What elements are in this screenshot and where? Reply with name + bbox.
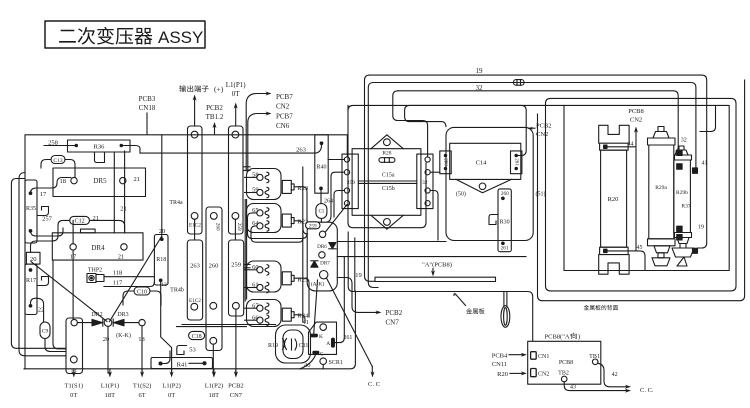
wire R24 right	[294, 315, 305, 322]
wire C9 down	[45, 339, 66, 352]
wire T1S2 down	[141, 326, 143, 373]
svg-text:0T: 0T	[232, 90, 241, 98]
bottom label T1(S2) 6T	[141, 369, 143, 374]
svg-text:R30: R30	[500, 220, 510, 226]
svg-text:DR7: DR7	[320, 261, 330, 267]
svg-text:R40: R40	[316, 165, 326, 171]
svg-text:G: G	[320, 352, 324, 358]
AK terminal	[320, 271, 328, 279]
svg-text:TB1.2: TB1.2	[206, 113, 224, 121]
capacitor C9	[40, 322, 50, 339]
wire loop left outer	[11, 179, 66, 349]
C15 top triangle	[371, 135, 403, 149]
connector bar TR4b-2	[229, 240, 244, 316]
svg-text:53: 53	[189, 347, 196, 354]
C14 left pad	[440, 151, 451, 174]
wire 19	[370, 75, 707, 248]
svg-text:CN2: CN2	[630, 117, 642, 124]
diagonal C15pad to DR6	[326, 205, 347, 232]
thermal THP2 symbol	[87, 274, 96, 283]
svg-text:19: 19	[698, 225, 704, 231]
svg-text:L1(P2): L1(P2)	[162, 383, 180, 390]
svg-text:CN11: CN11	[492, 361, 507, 368]
wire TB2 43	[564, 382, 627, 391]
stub wires g1	[244, 166, 250, 168]
label box 20	[26, 252, 40, 264]
svg-text:TR4b: TR4b	[170, 288, 184, 294]
svg-text:32: 32	[422, 180, 428, 186]
wire CC	[371, 367, 373, 375]
svg-text:(50): (50)	[456, 191, 466, 198]
wire R18 top	[161, 135, 163, 239]
wire loop C14	[446, 127, 533, 240]
svg-text:"A"(PCB8): "A"(PCB8)	[422, 262, 452, 269]
svg-text:64: 64	[252, 220, 259, 227]
wire KK down	[107, 326, 109, 373]
resistor R29a collar bottom	[648, 239, 676, 246]
wire R17 bottom	[31, 298, 44, 322]
svg-text:L1(P2): L1(P2)	[205, 383, 223, 390]
svg-text:32: 32	[681, 138, 687, 144]
svg-text:259: 259	[309, 223, 317, 229]
right inner staple	[700, 105, 716, 131]
wire to PCB7 CN2	[246, 94, 268, 172]
diode DR3	[112, 319, 114, 326]
svg-text:32: 32	[476, 84, 484, 92]
svg-text:T1(S2): T1(S2)	[133, 383, 151, 390]
svg-text:PCB7: PCB7	[276, 113, 293, 121]
capacitor C13	[51, 156, 65, 164]
svg-text:PCB8: PCB8	[559, 360, 573, 366]
wire bundle b	[251, 226, 303, 242]
svg-text:CN18: CN18	[139, 104, 156, 112]
svg-text:18T: 18T	[105, 392, 116, 399]
svg-text:PCB2: PCB2	[386, 309, 403, 317]
wire into R40	[320, 142, 323, 145]
resistor R20 bottom bracket	[599, 255, 629, 275]
svg-text:257: 257	[42, 216, 53, 223]
wire DR3	[124, 322, 139, 324]
svg-text:C. C: C. C	[368, 381, 380, 388]
wire 44	[607, 130, 636, 147]
svg-text:C. C.: C. C.	[640, 387, 654, 394]
wire 258	[44, 145, 76, 147]
resistor R36	[68, 140, 131, 152]
svg-text:C1: C1	[318, 210, 324, 215]
lug 19c	[693, 248, 698, 253]
svg-text:0T: 0T	[70, 392, 77, 399]
resistor R29b collar	[675, 155, 692, 160]
svg-text:60: 60	[252, 264, 259, 271]
svg-text:R29a: R29a	[655, 185, 667, 191]
svg-text:(+): (+)	[214, 85, 224, 94]
pcb8 box	[528, 341, 601, 384]
C15 mid lines	[358, 180, 417, 182]
svg-text:R17: R17	[26, 278, 36, 284]
svg-text:19: 19	[476, 67, 484, 75]
wire loop left inner	[19, 173, 66, 356]
thyristor SCR1 body	[309, 322, 337, 354]
resistor group R24	[247, 300, 282, 327]
svg-text:R28: R28	[382, 150, 391, 156]
DR4 tab	[81, 229, 96, 233]
wire R22 right	[294, 221, 308, 234]
svg-text:CN1: CN1	[538, 354, 549, 360]
middle box bottom	[348, 232, 533, 341]
svg-text:PCB4: PCB4	[492, 353, 508, 360]
svg-text:58: 58	[252, 172, 259, 179]
lug 41a	[677, 164, 682, 169]
svg-text:PCB2: PCB2	[228, 383, 244, 390]
wire transformer wrapper	[348, 105, 426, 227]
capacitor C18	[189, 331, 205, 339]
svg-text:PCB8("A": PCB8("A"	[545, 334, 573, 341]
svg-text:0T: 0T	[168, 392, 175, 399]
SCR1 bottom terminal	[320, 358, 327, 365]
svg-text:R20: R20	[608, 196, 619, 203]
wire long A	[337, 241, 446, 243]
resistor R41 box	[151, 358, 213, 369]
C15 left pad	[342, 154, 358, 209]
svg-text:18T: 18T	[209, 392, 220, 399]
resistor R20 collar bottom	[600, 247, 629, 254]
connector bar TR4a-1	[188, 126, 203, 234]
svg-text:PCB8: PCB8	[628, 108, 644, 115]
svg-text:R19: R19	[268, 343, 278, 349]
svg-text:18: 18	[60, 178, 67, 185]
title box	[45, 21, 205, 48]
wire bundle stubs	[245, 176, 257, 178]
connector bar TR4b-1	[187, 240, 202, 320]
svg-text:PCB2: PCB2	[536, 123, 552, 130]
label metal plate	[466, 308, 485, 314]
resistor R35	[25, 180, 37, 243]
diagonal AK to CC	[327, 278, 373, 366]
svg-text:L1(P1): L1(P1)	[101, 383, 119, 390]
wire PCB2 CN7 right	[337, 278, 378, 313]
svg-text:R36: R36	[94, 144, 106, 151]
resistor R29a collar top	[648, 138, 676, 145]
wire DR4 up	[72, 220, 74, 243]
tab below R36	[95, 152, 105, 163]
wire long B	[337, 256, 526, 258]
R41 right wire	[189, 362, 203, 364]
wire DR5 left	[31, 178, 71, 194]
svg-text:12: 12	[161, 282, 167, 288]
svg-text:L1(P1): L1(P1)	[226, 81, 247, 89]
THP2 wires 118 117	[104, 276, 154, 278]
node K-K	[104, 319, 112, 327]
wire pcb2cn2 drop	[405, 105, 527, 155]
wire 32	[398, 91, 678, 151]
terminal T1S2	[139, 319, 145, 325]
resistor R29a funnel	[654, 246, 670, 253]
wire R23 right	[294, 187, 307, 221]
svg-text:260: 260	[209, 263, 219, 270]
svg-text:C18: C18	[192, 334, 202, 340]
resistor R20 top bracket	[599, 125, 629, 143]
svg-text:66: 66	[252, 314, 259, 321]
svg-text:C14: C14	[476, 160, 488, 167]
resistor R29b collar bottom	[675, 233, 692, 238]
DR7 terminal	[319, 252, 325, 258]
connector bar 260 middle	[206, 207, 222, 351]
diagonal wire 20box to KK	[31, 262, 107, 322]
svg-text:261: 261	[513, 158, 518, 166]
svg-text:C10: C10	[137, 289, 147, 295]
wire A pad right	[334, 257, 344, 343]
ferrite bead	[514, 80, 525, 86]
svg-text:42: 42	[612, 372, 618, 378]
wire loop inner	[283, 330, 303, 359]
capacitor C10	[134, 287, 150, 295]
resistor R30	[498, 189, 511, 252]
wire C1 down	[320, 219, 322, 223]
tab 53	[177, 346, 187, 355]
svg-text:R35: R35	[26, 206, 36, 212]
resistor R40	[315, 135, 328, 193]
wire to PCB7 CN6	[248, 114, 268, 172]
svg-text:19: 19	[355, 272, 362, 279]
lug 19a	[677, 226, 682, 231]
svg-text:264: 264	[324, 199, 333, 205]
connector bar TR4a-2	[229, 126, 244, 234]
svg-text:17: 17	[40, 191, 47, 198]
capacitor C1	[316, 204, 327, 219]
svg-text:A: A	[326, 341, 330, 347]
svg-text:R37: R37	[681, 204, 690, 210]
DR4 terminal 17	[70, 244, 76, 250]
svg-text:TR4a: TR4a	[169, 200, 183, 206]
svg-text:6T: 6T	[138, 392, 145, 399]
svg-text:R25: R25	[297, 276, 308, 283]
bar terminal T1S1	[66, 318, 83, 374]
svg-text:61: 61	[252, 282, 259, 289]
wire 45	[607, 251, 645, 271]
svg-text:67: 67	[252, 302, 259, 309]
bottom label L1(P2) 0T	[171, 369, 173, 374]
resistor R29b body	[674, 160, 691, 233]
diode box DR6 DR7	[307, 222, 337, 291]
capacitor C12	[70, 216, 90, 224]
resistor R20 collar top	[600, 143, 629, 150]
wire loop outer	[276, 325, 311, 363]
svg-text:C13: C13	[53, 158, 62, 164]
svg-text:259: 259	[231, 262, 241, 269]
terminal bar circle	[191, 131, 198, 138]
relay box DR4	[52, 233, 143, 260]
bottom label PCB2 CN7	[235, 369, 237, 374]
svg-text:DR5: DR5	[93, 177, 107, 185]
svg-text:CN2: CN2	[276, 103, 290, 111]
wire TB1 42	[598, 363, 628, 387]
wire C12 right	[90, 220, 125, 232]
svg-text:C12: C12	[75, 219, 85, 225]
SCR1 A pad	[332, 338, 335, 347]
svg-text:T1(S1): T1(S1)	[65, 383, 83, 390]
bottom label L1(P1) 18T	[109, 369, 111, 374]
resistor R29b funnel	[677, 238, 689, 244]
capacitor C11	[291, 339, 293, 350]
SCR1 top terminal	[320, 324, 327, 331]
svg-text:259: 259	[236, 223, 242, 231]
svg-text:CN2: CN2	[536, 131, 548, 138]
resistor R17	[25, 264, 37, 314]
tab right of R17	[37, 277, 49, 286]
svg-text:118: 118	[113, 270, 123, 277]
C14 bottom triangle	[456, 179, 511, 192]
svg-text:CN2: CN2	[538, 372, 549, 378]
DR5 terminal 21	[120, 177, 126, 183]
R41 left wire	[159, 362, 162, 365]
svg-text:261: 261	[501, 246, 509, 252]
svg-text:CN7: CN7	[230, 392, 243, 399]
svg-text:C15b: C15b	[382, 186, 395, 192]
C15 right wires	[430, 171, 440, 173]
lug 41b	[693, 168, 698, 173]
wire bars link2	[234, 219, 236, 240]
svg-text:DR2: DR2	[91, 312, 102, 318]
wire 257	[31, 228, 64, 236]
hook hanger	[503, 292, 505, 308]
C15 left wires	[328, 159, 344, 161]
svg-text:R41: R41	[177, 362, 188, 369]
C15 bottom triangle	[371, 215, 403, 229]
svg-text:21: 21	[134, 176, 141, 183]
diagonal wire R18 to KK	[110, 237, 162, 322]
svg-text:259: 259	[347, 180, 356, 186]
svg-text:263: 263	[296, 147, 306, 154]
wire L1P2 0T	[161, 282, 172, 370]
svg-text:44: 44	[628, 141, 634, 147]
label output terminal(+)	[179, 85, 208, 92]
tab right of R35	[37, 207, 49, 216]
tab R30	[489, 215, 498, 225]
svg-text:THP2: THP2	[88, 268, 102, 274]
terminal bar circle	[232, 131, 239, 138]
svg-text:CN7: CN7	[386, 319, 400, 327]
svg-text:R29b: R29b	[676, 190, 688, 196]
DR4 terminal 21	[121, 244, 127, 250]
capacitor block C14	[450, 143, 521, 179]
svg-text:43: 43	[570, 385, 576, 391]
svg-text:263: 263	[190, 263, 200, 270]
resistor group R22	[247, 204, 282, 233]
resistor R20 body	[601, 150, 627, 247]
SCR1 K pad	[311, 334, 318, 337]
bottom label T1(S1) 0T	[73, 369, 75, 374]
svg-text:): )	[578, 334, 580, 341]
lug 32	[677, 150, 682, 155]
svg-text:CN6: CN6	[276, 122, 290, 130]
svg-text:C11: C11	[299, 343, 309, 349]
right inner box	[564, 105, 729, 270]
svg-text:PCB2: PCB2	[206, 104, 223, 112]
wire DR7 to SCRK	[314, 280, 318, 333]
wire C13	[41, 160, 51, 169]
transformer C15 box	[352, 149, 421, 216]
svg-text:ASSY: ASSY	[158, 28, 203, 47]
wire R25 right	[294, 278, 309, 317]
wire DR4 left down	[53, 261, 66, 349]
svg-text:R20: R20	[497, 371, 508, 378]
svg-text:K: K	[319, 334, 323, 340]
wire 537 vertical	[538, 80, 745, 301]
label metal plate back	[584, 305, 618, 310]
wire transformer wrapper top	[348, 105, 564, 110]
pcb8 CN1	[531, 352, 537, 360]
wire with bead	[373, 83, 696, 168]
resistor R29a tip	[658, 127, 664, 132]
SCR1 G pad	[313, 351, 319, 353]
svg-text:SCR1: SCR1	[329, 360, 343, 366]
wire C12 left	[31, 220, 70, 252]
bottom label L1(P2) 18T	[213, 369, 215, 374]
svg-text:DR6: DR6	[317, 244, 327, 250]
wire bundle verticals	[244, 200, 246, 302]
left assembly box	[25, 135, 347, 369]
svg-text:41: 41	[702, 161, 708, 167]
svg-text:DR4: DR4	[91, 244, 105, 252]
wire bars link1	[194, 219, 196, 240]
wire DR4 down	[72, 250, 74, 318]
wire R40 down	[320, 188, 322, 203]
label 259 stadium	[306, 222, 321, 229]
resistor group R25	[247, 261, 282, 292]
svg-text:65: 65	[252, 207, 259, 214]
svg-text:PCB7: PCB7	[276, 93, 293, 101]
resistor R18	[154, 235, 168, 286]
wire DR2	[77, 322, 92, 324]
svg-text:(K-K): (K-K)	[116, 332, 131, 339]
wire vert pair	[113, 152, 115, 233]
svg-text:PCB3: PCB3	[139, 95, 156, 103]
svg-text:21: 21	[120, 206, 127, 213]
DR6 terminal	[319, 231, 325, 237]
svg-text:C9: C9	[42, 329, 49, 335]
svg-text:260: 260	[215, 223, 221, 231]
stub wires g3	[244, 264, 250, 266]
C14 right pad	[511, 151, 522, 174]
DR5 terminal 18	[71, 177, 77, 183]
svg-text:TB2: TB2	[558, 371, 569, 377]
relay box DR5	[53, 168, 146, 197]
svg-text:260: 260	[501, 191, 509, 197]
wire bar260 down	[212, 344, 214, 373]
wire bundle a	[248, 213, 308, 239]
metal plate	[375, 277, 496, 281]
diode DR2	[92, 319, 103, 325]
wire C10	[123, 291, 134, 305]
svg-text:45: 45	[637, 245, 643, 251]
wire bar259 down	[235, 309, 237, 373]
svg-text:260: 260	[443, 158, 448, 166]
resistor group R23	[247, 169, 282, 200]
resistor R29a body	[649, 145, 674, 239]
svg-text:R18: R18	[156, 257, 166, 263]
vertical 355 19	[354, 238, 356, 291]
svg-text:C15a: C15a	[382, 173, 395, 179]
svg-text:DR3: DR3	[117, 312, 128, 318]
right outer box	[546, 98, 737, 291]
svg-text:117: 117	[113, 279, 123, 286]
lug 19b	[677, 235, 682, 240]
C15 right pad	[417, 154, 433, 209]
svg-text:21: 21	[118, 254, 125, 261]
svg-text:59: 59	[252, 187, 259, 194]
resistor R29b tip	[679, 146, 684, 150]
wire SCR bottom	[322, 365, 324, 369]
